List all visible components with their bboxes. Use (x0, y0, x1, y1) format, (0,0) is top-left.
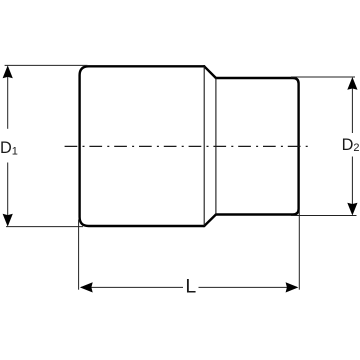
D2 dimension line upper segment (351, 79, 353, 134)
top chamfer edge (204, 66, 216, 78)
extension line top right for D2 (291, 76, 355, 78)
extension line bottom right for D2 (291, 215, 357, 217)
extension line lower left for L (78, 220, 80, 290)
D1 arrowhead down (3, 214, 13, 227)
extension line bottom left for D1 (6, 226, 83, 228)
D1 arrowhead up (3, 65, 13, 78)
D2 arrowhead up (347, 77, 357, 90)
bottom chamfer edge (204, 215, 216, 227)
shoulder edge line at large section end (203, 66, 205, 226)
D2 arrowhead down (347, 203, 357, 216)
socket body large diameter section outline (80, 66, 205, 226)
extension line top left for D1 (5, 64, 88, 66)
svg-text:D1: D1 (0, 139, 18, 157)
D1 dimension line lower segment (7, 163, 9, 226)
L arrowhead left (80, 282, 93, 292)
shoulder edge line at small section start (215, 78, 217, 215)
extension line lower right for L (298, 211, 300, 290)
centerline (dash-dot axis) (65, 145, 310, 147)
D1 dimension line upper segment (7, 67, 9, 129)
svg-text:L: L (185, 276, 196, 298)
L dimension line left segment (81, 286, 183, 288)
L arrowhead right (286, 282, 299, 292)
socket body small diameter section outline (216, 78, 299, 215)
svg-text:D2: D2 (342, 136, 360, 154)
L dimension line right segment (199, 286, 298, 288)
D2 dimension line lower segment (351, 157, 353, 215)
